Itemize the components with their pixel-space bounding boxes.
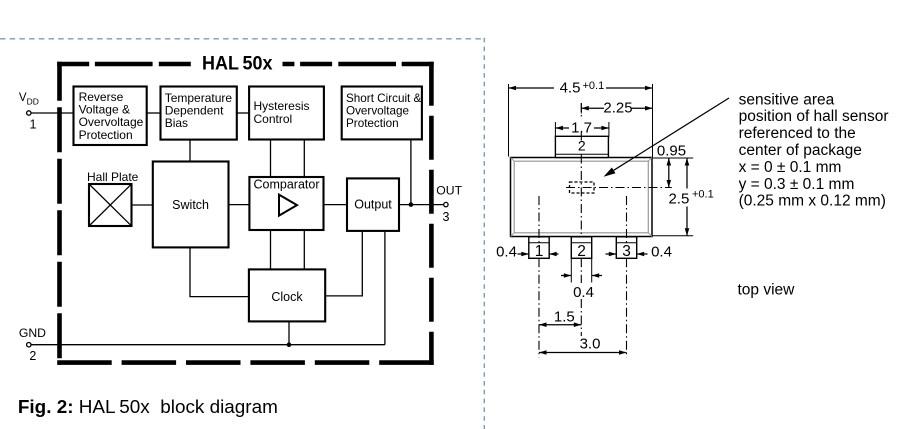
block: Short Circuit & Overvoltage Protection	[342, 87, 422, 140]
svg-text:sensitive area: sensitive area	[739, 91, 835, 108]
svg-text:0.4: 0.4	[651, 244, 672, 261]
dimension 4.5 +0.1	[509, 80, 653, 158]
svg-text:Short Circuit &: Short Circuit &	[346, 92, 422, 105]
svg-text:GND: GND	[19, 326, 46, 340]
page-break dashed line horizontal	[0, 38, 485, 40]
svg-text:position of hall sensor: position of hall sensor	[739, 108, 889, 125]
title HAL 50x	[202, 54, 273, 75]
svg-text:center of package: center of package	[739, 142, 862, 159]
dimension 0.4 pin1	[496, 244, 558, 261]
sensitive area marker	[570, 182, 595, 193]
svg-text:3: 3	[443, 210, 450, 224]
svg-text:2.5: 2.5	[668, 190, 689, 207]
svg-text:Switch: Switch	[172, 198, 209, 212]
pin 3	[616, 237, 636, 260]
svg-text:Overvoltage: Overvoltage	[346, 104, 409, 117]
dimension 3.0	[539, 335, 627, 354]
wire output to GND rail	[384, 231, 386, 345]
top view label	[738, 281, 796, 298]
pin OUT terminal	[436, 184, 462, 225]
wire clock to output	[325, 231, 362, 296]
svg-text:1.5: 1.5	[554, 308, 575, 325]
dimension 2.5 +0.1	[668, 158, 713, 236]
svg-text:y = 0.3 ± 0.1 mm: y = 0.3 ± 0.1 mm	[739, 176, 855, 193]
svg-text:Clock: Clock	[271, 290, 303, 304]
svg-text:top view: top view	[738, 281, 796, 298]
svg-text:1.7: 1.7	[571, 120, 592, 137]
block: Switch	[153, 162, 229, 248]
wire block2 to block3	[237, 112, 249, 114]
svg-text:0.95: 0.95	[657, 142, 686, 159]
svg-text:2: 2	[577, 243, 586, 260]
package tab	[555, 136, 608, 157]
dimension 0.4 pin2 width	[561, 258, 602, 301]
svg-text:2.25: 2.25	[603, 100, 632, 117]
svg-text:2: 2	[578, 137, 586, 153]
svg-text:2: 2	[29, 349, 36, 363]
block: Comparator	[249, 177, 323, 230]
dimension 0.95	[657, 142, 686, 187]
node junction on GND rail	[287, 342, 292, 347]
extension line top right	[652, 157, 693, 159]
wire clock to GND rail	[288, 321, 290, 344]
svg-text:(0.25 mm x 0.12 mm): (0.25 mm x 0.12 mm)	[739, 193, 886, 210]
dimension 2.25	[581, 100, 652, 117]
svg-text:referenced to the: referenced to the	[739, 125, 856, 142]
pin VDD terminal	[19, 92, 39, 132]
svg-text:Protection: Protection	[79, 128, 133, 142]
svg-text:Output: Output	[354, 198, 392, 212]
svg-text:Bias: Bias	[165, 116, 188, 130]
svg-text:Protection: Protection	[346, 117, 399, 130]
wire GND rail	[31, 344, 385, 346]
wire VDD to U1	[31, 112, 74, 114]
pin 3 centerline	[626, 196, 628, 358]
svg-text:+0.1: +0.1	[692, 189, 714, 201]
vertical centerline	[580, 103, 582, 336]
block: Temperature Dependent Bias	[161, 87, 237, 140]
extension line bottom right	[652, 235, 693, 237]
wire hall plate to switch	[132, 204, 153, 206]
dimension 1.7	[555, 120, 609, 138]
block: Output	[347, 178, 399, 231]
wire output to OUT pin	[399, 204, 446, 206]
wire hysteresis to comparator left	[270, 140, 272, 178]
svg-text:4.5: 4.5	[560, 80, 581, 97]
package body outline	[511, 158, 653, 237]
pointer arrow to sensitive area	[604, 98, 730, 177]
svg-text:0.4: 0.4	[496, 244, 517, 261]
page-break dashed line vertical	[483, 38, 485, 429]
svg-text:3.0: 3.0	[580, 335, 601, 352]
wire block1 to block2	[147, 112, 161, 114]
wire bias to switch	[189, 140, 191, 162]
dimension 1.5	[539, 308, 581, 327]
dimension 0.4 pin3	[606, 244, 672, 261]
svg-text:Control: Control	[254, 112, 293, 126]
svg-text:0.4: 0.4	[573, 284, 594, 301]
figure caption	[18, 397, 278, 418]
svg-text:Fig. 2: HAL 50x block diagram: Fig. 2: HAL 50x block diagram	[18, 397, 278, 418]
block: Clock	[249, 269, 325, 321]
pin 1	[529, 237, 549, 260]
wire comparator to output	[324, 204, 348, 206]
svg-text:OUT: OUT	[436, 184, 462, 198]
pin GND terminal	[19, 326, 46, 363]
svg-text:Hall Plate: Hall Plate	[87, 170, 139, 184]
svg-text:+0.1: +0.1	[583, 80, 605, 92]
wire comparator to clock right	[303, 230, 305, 269]
svg-text:Comparator: Comparator	[254, 177, 320, 191]
wire switch to comparator	[229, 204, 250, 206]
svg-text:x = 0 ± 0.1 mm: x = 0 ± 0.1 mm	[739, 159, 842, 176]
svg-text:1: 1	[535, 243, 544, 260]
svg-text:1: 1	[30, 118, 37, 132]
wire hysteresis to comparator right	[303, 140, 305, 178]
svg-text:3: 3	[622, 243, 631, 260]
IC boundary dashed border	[57, 62, 434, 365]
hall plate sensor element	[87, 170, 139, 226]
wire switch to clock	[190, 247, 249, 296]
wire comparator to clock left	[270, 230, 272, 269]
svg-text:DD: DD	[27, 97, 39, 107]
pin 2	[571, 237, 591, 260]
horizontal centerline	[566, 187, 672, 189]
wire protection block to OUT node	[410, 139, 412, 204]
node junction on OUT wire	[409, 202, 414, 207]
block: Reverse Voltage & Overvoltage Protection	[74, 87, 147, 146]
block: Hysteresis Control	[249, 87, 324, 140]
sensitive area annotation text	[739, 91, 889, 209]
svg-text:HAL 50x: HAL 50x	[202, 54, 273, 75]
pin 1 centerline	[538, 196, 540, 358]
